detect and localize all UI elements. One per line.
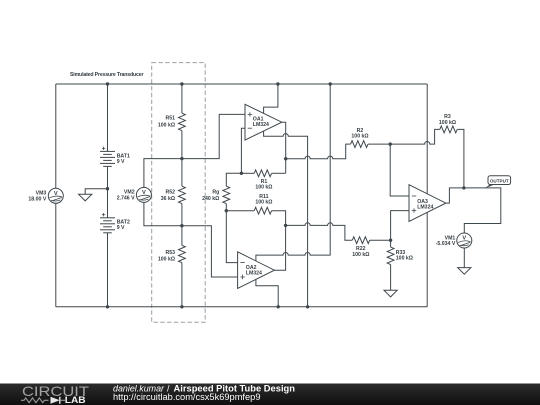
- resistor R53 100 kOhm: [158, 245, 185, 262]
- wire R33 top lead: [390, 240, 392, 247]
- wire OA1 output down: [282, 122, 286, 173]
- resistor R11 100 kOhm: [254, 194, 272, 214]
- svg-text:LM324: LM324: [253, 122, 269, 128]
- wire R1 right lead: [272, 172, 286, 174]
- svg-text:http://circuitlab.com/csx5k69p: http://circuitlab.com/csx5k69pmfep9: [113, 392, 261, 402]
- wire R33 bottom lead: [390, 265, 392, 291]
- wire R51 to node: [181, 131, 183, 159]
- svg-text:LM324: LM324: [417, 205, 433, 211]
- wire OA3 minus input: [390, 144, 409, 196]
- node junction ground tee: [106, 187, 109, 190]
- node junction BAT1 top on +9V rail: [106, 82, 109, 85]
- svg-text:2.746 V: 2.746 V: [117, 196, 135, 202]
- svg-text:9 V: 9 V: [117, 225, 125, 231]
- wire OA1 V- pin with hop: [264, 131, 308, 307]
- wire to Rg top: [226, 173, 241, 186]
- wire R3 right lead down: [457, 129, 464, 188]
- wire R11 left lead: [226, 210, 254, 212]
- footer bar: [0, 384, 540, 405]
- svg-text:100 kΩ: 100 kΩ: [351, 134, 368, 140]
- node junction R53 on -9V rail: [180, 305, 183, 308]
- voltmeter VM3 18.00 V: [28, 188, 63, 203]
- resistor R22 100 kOhm: [352, 237, 369, 258]
- voltmeter VM2 2.746 V: [117, 187, 152, 202]
- svg-text:-5.034 V: -5.034 V: [436, 241, 456, 247]
- node junction OA1 output: [284, 157, 287, 160]
- svg-text:100 kΩ: 100 kΩ: [352, 252, 369, 258]
- svg-text:100 kΩ: 100 kΩ: [439, 120, 456, 126]
- svg-text:9 V: 9 V: [117, 159, 125, 165]
- wire VM3 bottom riser: [55, 203, 57, 306]
- node junction OA1 V- rail: [306, 305, 309, 308]
- wire OA2 V- pin: [256, 280, 278, 307]
- svg-text:100 kΩ: 100 kΩ: [158, 256, 175, 262]
- node junction R2 R3 OA3 minus: [389, 142, 392, 145]
- wire OA1 output to R2 with hops: [286, 144, 351, 159]
- wire R52 leads: [181, 159, 183, 187]
- wire BAT1 to BAT2: [107, 166, 109, 217]
- node junction OA1 minus R1 Rg: [240, 172, 243, 175]
- resistor R3 100 kOhm: [439, 114, 457, 133]
- dashed box Simulated Pressure Transducer: [152, 63, 206, 323]
- wire OA3 output net: [446, 188, 501, 233]
- wire OA1 V+ pin: [264, 84, 278, 113]
- battery BAT2 9 V: [100, 213, 130, 233]
- wire VM2 bottom horizontal to OA2 plus: [144, 202, 238, 277]
- op-amp OA2 LM324: [238, 252, 275, 289]
- svg-text:Rg: Rg: [212, 190, 219, 196]
- svg-text:100 kΩ: 100 kΩ: [255, 199, 272, 205]
- svg-text:18.00 V: 18.00 V: [28, 196, 46, 202]
- voltmeter VM1 -5.034 V: [436, 233, 472, 248]
- wire BAT2 bottom lead: [107, 233, 109, 307]
- node junction R22 R33 OA3 plus: [389, 239, 392, 242]
- resistor R52 36 kOhm: [161, 186, 186, 203]
- svg-text:240 kΩ: 240 kΩ: [202, 196, 219, 202]
- resistor Rg 240 kOhm: [202, 186, 230, 203]
- wire R2 right lead: [368, 143, 390, 145]
- svg-text:LM324: LM324: [246, 271, 262, 277]
- svg-text:LAB: LAB: [65, 395, 86, 405]
- wire OA2 V+ pin with hops: [256, 84, 330, 261]
- svg-text:R52: R52: [165, 190, 175, 196]
- wire VM3 top riser: [55, 84, 57, 188]
- svg-text:100 kΩ: 100 kΩ: [255, 184, 272, 190]
- node junction OA2 V- rail: [277, 305, 280, 308]
- node junction OA2 V+ rail: [329, 82, 332, 85]
- wire OA1 minus input net: [241, 128, 245, 173]
- op-amp OA1 LM324: [245, 104, 282, 140]
- wire OA3 V+ pin from top rail: [426, 84, 428, 194]
- node junction OA1 V+ rail: [276, 82, 279, 85]
- resistor R2 100 kOhm: [351, 128, 369, 148]
- wire R53 leads: [181, 226, 183, 246]
- svg-text:100 kΩ: 100 kΩ: [396, 256, 413, 262]
- node junction OA2 output R11 R22: [284, 224, 287, 227]
- wire OA3 plus input: [391, 211, 409, 241]
- ground GND2 below R33: [384, 290, 397, 297]
- wire ground stub: [85, 189, 107, 195]
- wire OA3 V- pin to bottom rail: [426, 212, 428, 306]
- wire Rg bottom to OA2 minus: [226, 204, 237, 263]
- node junction R51 R52: [180, 157, 183, 160]
- node junction R51 top on +9V rail: [180, 82, 183, 85]
- wire R22 right lead: [370, 239, 391, 241]
- logo resistor zigzag: [21, 398, 49, 403]
- wire R22 feed with hops: [286, 223, 353, 240]
- ground GND1: [79, 194, 92, 201]
- svg-text:OUTPUT: OUTPUT: [490, 179, 509, 184]
- node junction BAT2 on -9V rail: [106, 305, 109, 308]
- svg-text:100 kΩ: 100 kΩ: [158, 122, 175, 128]
- logo diode: [51, 397, 60, 404]
- wire R2 to R3 with hop: [390, 129, 440, 144]
- svg-text:Simulated Pressure Transducer: Simulated Pressure Transducer: [70, 72, 144, 78]
- wire top +9V rail: [56, 83, 427, 85]
- resistor R33 100 kOhm: [387, 247, 413, 264]
- resistor R51 100 kOhm: [158, 113, 185, 130]
- node junction output R3: [462, 186, 465, 189]
- svg-text:R51: R51: [165, 116, 175, 122]
- wire VM1 bottom lead: [463, 248, 465, 268]
- wire bottom -9V rail: [56, 306, 427, 308]
- wire R1 left lead: [241, 172, 254, 174]
- node junction R52 R53: [180, 224, 183, 227]
- wire BAT1 top lead: [107, 84, 109, 151]
- wire OA2 output riser: [274, 225, 285, 270]
- wire VM2 top horizontal to OA1 plus: [144, 114, 245, 187]
- svg-text:36 kΩ: 36 kΩ: [161, 196, 175, 202]
- ground GND3 below VM1: [458, 268, 471, 275]
- node junction Rg R11: [225, 209, 228, 212]
- resistor R1 100 kOhm: [254, 170, 272, 190]
- wire R51 top lead: [181, 84, 183, 113]
- battery BAT1 9 V: [100, 147, 130, 167]
- svg-text:R53: R53: [165, 250, 175, 256]
- net flag OUTPUT: [485, 176, 511, 189]
- op-amp OA3 LM324: [409, 185, 446, 222]
- wire R11 right lead down: [272, 211, 286, 226]
